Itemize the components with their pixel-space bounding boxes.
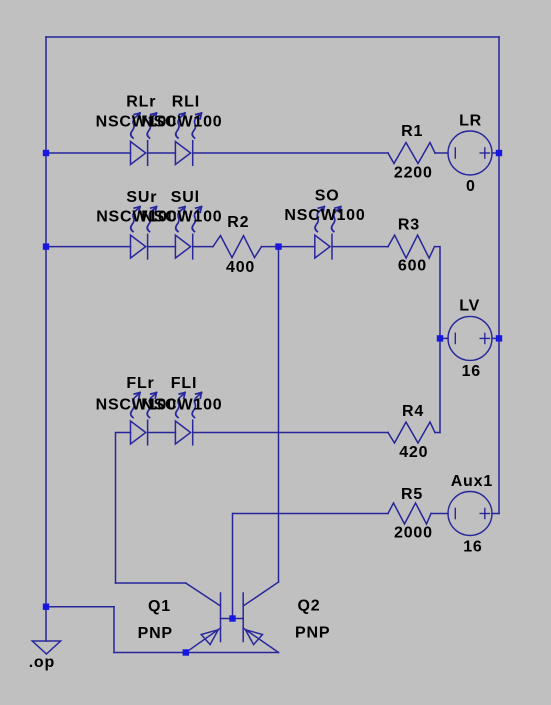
voltage source LV: [448, 316, 492, 360]
wire row3 between diodes: [148, 432, 176, 434]
wire Aux1 right lead: [492, 513, 499, 515]
wire emitter bottom left: [114, 652, 186, 654]
svg-text:2000: 2000: [394, 525, 433, 542]
wire row1 between diodes: [148, 152, 176, 154]
svg-text:LV: LV: [459, 298, 480, 315]
svg-text:2200: 2200: [394, 164, 433, 181]
svg-text:600: 600: [398, 258, 427, 275]
svg-text:PNP: PNP: [138, 625, 173, 642]
svg-text:SUr: SUr: [126, 189, 157, 206]
wire R3 corner down to LV and R4: [435, 247, 441, 433]
svg-text:PNP: PNP: [295, 625, 330, 642]
svg-text:Q2: Q2: [298, 598, 321, 615]
svg-text:LR: LR: [459, 113, 482, 130]
wire top border: [46, 36, 499, 38]
node LV left: [437, 335, 443, 341]
node ground branch: [43, 604, 49, 610]
wire R1 to LR: [435, 152, 448, 154]
resistor R5: [388, 503, 431, 524]
diode RLI: [175, 141, 192, 166]
resistor R3: [388, 235, 435, 258]
diode RLr: [131, 141, 148, 166]
svg-text:Aux1: Aux1: [451, 473, 493, 490]
wire R5 to Aux1: [431, 513, 448, 515]
wire Q1 collector horizontal: [116, 582, 186, 584]
wire R4 to vertical: [435, 432, 440, 434]
node emitter junction: [183, 649, 189, 655]
svg-text:NSCW100: NSCW100: [284, 207, 365, 224]
voltage source Aux1: [448, 492, 492, 536]
LED arrows SUl: [176, 207, 202, 232]
LED arrows RLI: [176, 113, 202, 138]
wire LV right lead: [492, 337, 499, 339]
voltage source LR: [448, 131, 492, 175]
svg-text:FLr: FLr: [126, 375, 154, 392]
resistor R1: [388, 143, 435, 164]
svg-text:R4: R4: [402, 403, 424, 420]
wire Q2 collector vertical: [278, 247, 280, 582]
svg-text:NSCW100: NSCW100: [141, 397, 222, 414]
svg-text:RLr: RLr: [126, 94, 156, 111]
wire ground branch vertical: [113, 607, 115, 653]
LED arrows FLI: [176, 393, 202, 418]
diode SUr: [131, 234, 148, 259]
wire Q1-Q2 base connector: [221, 618, 244, 620]
svg-text:16: 16: [462, 363, 481, 380]
wire LV left lead: [440, 337, 448, 339]
wire ground branch horizontal: [46, 606, 114, 608]
svg-text:RLI: RLI: [172, 94, 200, 111]
svg-text:.op: .op: [29, 654, 55, 671]
diode SO: [315, 234, 332, 259]
svg-text:NSCW100: NSCW100: [141, 114, 222, 131]
svg-text:Q1: Q1: [148, 598, 171, 615]
svg-text:SO: SO: [315, 188, 340, 205]
wire base from R5 corner down: [232, 514, 234, 619]
wire emitter bottom right: [186, 652, 279, 654]
wire row2 left: [46, 246, 131, 248]
resistor R2: [213, 236, 262, 258]
resistor R4: [388, 422, 435, 443]
diode FLI: [175, 420, 192, 445]
wire row3 left corner: [116, 433, 131, 584]
svg-text:R3: R3: [398, 217, 420, 234]
wire row1 to R1: [193, 152, 388, 154]
node R2-SO junction: [275, 243, 281, 249]
node LV right: [496, 335, 502, 341]
LED arrows SO: [315, 207, 341, 232]
LED arrows FLr: [131, 393, 157, 418]
node base junction: [229, 615, 235, 621]
svg-text:R2: R2: [227, 214, 249, 231]
wire R5 row: [233, 513, 388, 515]
wire R2 to SO: [262, 246, 315, 248]
svg-text:R1: R1: [401, 123, 423, 140]
wire row3 to R4: [193, 432, 388, 434]
LED arrows SUr: [131, 207, 157, 232]
diode FLr: [131, 420, 148, 445]
svg-text:NSCW100: NSCW100: [141, 209, 222, 226]
node row2 left: [43, 243, 49, 249]
LED arrows RLr: [131, 113, 157, 138]
wire left border: [45, 37, 47, 641]
ground: [32, 641, 60, 654]
svg-text:420: 420: [399, 444, 428, 461]
node row1 right: [496, 150, 502, 156]
svg-text:SUl: SUl: [171, 189, 200, 206]
svg-text:R5: R5: [401, 486, 423, 503]
transistor Q1: [186, 583, 221, 653]
diode SUl: [175, 234, 192, 259]
svg-text:0: 0: [466, 178, 476, 195]
wire row2 between diodes: [148, 246, 176, 248]
transistor Q2: [243, 582, 278, 653]
svg-text:400: 400: [226, 259, 255, 276]
wire SO to R3: [332, 246, 388, 248]
wire row1 left: [46, 152, 131, 154]
wire right border: [498, 37, 500, 514]
svg-text:FLI: FLI: [171, 375, 197, 392]
wire row2 to R2: [193, 246, 213, 248]
node row1 left: [43, 150, 49, 156]
svg-text:16: 16: [463, 538, 482, 555]
wire LR to right border: [492, 152, 499, 154]
